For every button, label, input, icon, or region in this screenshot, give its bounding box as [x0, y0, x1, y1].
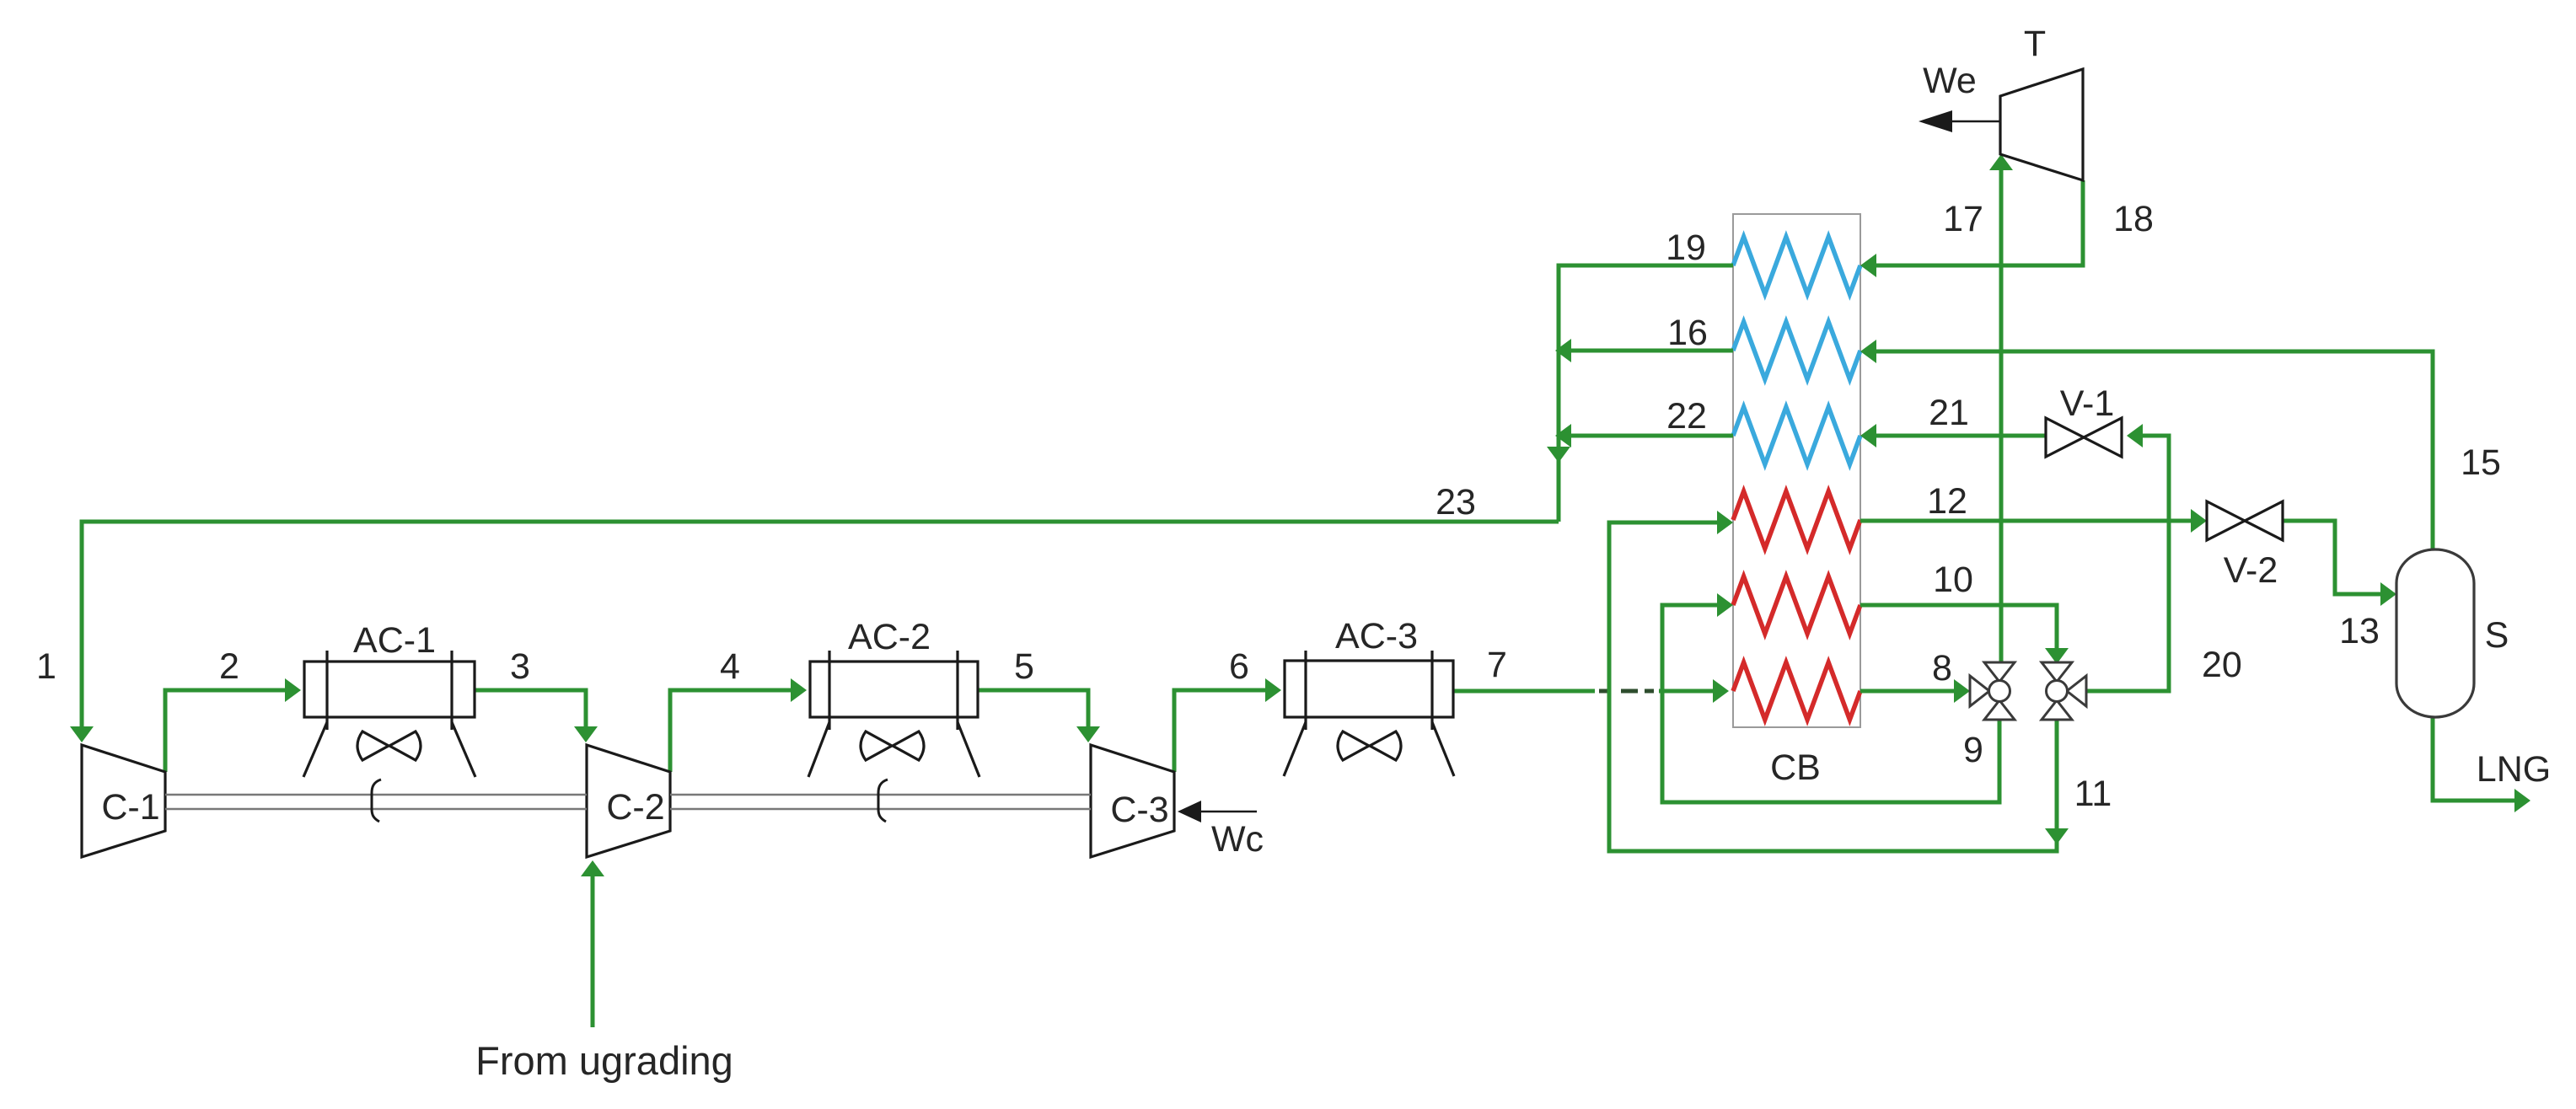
arrow feed into C-2: [581, 860, 604, 876]
arrow stream 10 into valve: [2045, 648, 2069, 664]
three-way valve 9 (left): [1970, 662, 2015, 720]
svg-text:V-2: V-2: [2224, 550, 2278, 591]
CB coil 8 (red zigzag): [1733, 662, 1860, 720]
fan AC-2: [861, 731, 924, 760]
wire stream 9 (valve 9 down, left and up to CB coil 10): [1662, 605, 1999, 802]
svg-text:16: 16: [1667, 313, 1708, 353]
arrow stream 11 into CB coil 12: [1717, 511, 1733, 534]
turbine T: [2000, 69, 2083, 180]
svg-text:C-1: C-1: [101, 787, 159, 828]
wire stream 10 (CB coil 10 to right valve): [1860, 605, 2057, 656]
arrow stream 8 into valve 9: [1954, 679, 1970, 703]
air cooler AC-2: [808, 651, 979, 777]
svg-text:S: S: [2485, 615, 2509, 656]
svg-text:T: T: [2024, 24, 2046, 64]
svg-text:2: 2: [219, 646, 239, 687]
shaft C-2 to C-3: [670, 795, 1091, 809]
arrow stream 22 into collector: [1555, 424, 1571, 447]
wire stream 23 (return line to C-1, with stream 1 drop): [82, 522, 1559, 735]
svg-text:CB: CB: [1770, 747, 1821, 788]
svg-text:4: 4: [720, 646, 740, 687]
svg-text:Wc: Wc: [1211, 819, 1264, 860]
arrow stream 11 down at junction: [2045, 828, 2069, 844]
three-way valve (right): [2042, 662, 2086, 720]
wire stream 20 (valve to V-1): [2085, 436, 2169, 691]
wire stream 8 (CB coil 8 to valve 9): [1860, 689, 1962, 694]
compressor C-3: [1091, 745, 1174, 857]
svg-text:11: 11: [2074, 774, 2112, 814]
arrow stream 12 into V-2: [2191, 509, 2207, 533]
svg-text:22: 22: [1666, 396, 1707, 437]
CB coil 10 (red zigzag): [1733, 576, 1860, 634]
svg-text:17: 17: [1943, 199, 1983, 239]
svg-text:3: 3: [510, 646, 530, 687]
wire stream 22 (CB to collector): [1566, 434, 1733, 438]
svg-text:V-1: V-1: [2060, 383, 2115, 424]
wire stream 3 (AC-1 to C-2): [475, 690, 586, 735]
wire stream 4 (C-2 to AC-2): [670, 690, 799, 772]
arrow stream 3 into C-2: [574, 726, 598, 742]
wire stream 5 (AC-2 to C-3): [978, 690, 1088, 735]
svg-text:We: We: [1923, 61, 1977, 101]
svg-text:C-2: C-2: [606, 787, 664, 828]
wire stream 13 (V-2 to separator S): [2283, 521, 2389, 594]
svg-text:9: 9: [1963, 730, 1983, 770]
arrow stream 7 into CB: [1713, 679, 1729, 703]
CB coil 12 (red zigzag): [1733, 491, 1860, 549]
svg-text:From ugrading: From ugrading: [475, 1038, 733, 1083]
heat exchanger cold box CB: [1733, 214, 1860, 727]
CB coil 19 (blue zigzag): [1733, 237, 1860, 294]
arrow stream 5 into C-3: [1076, 726, 1100, 742]
wire stream 7 (AC-3 to CB coil, with dashed crossover): [1453, 689, 1721, 694]
arrow stream 20 into V-1: [2127, 424, 2143, 447]
svg-text:8: 8: [1932, 648, 1952, 688]
fan AC-3: [1338, 731, 1401, 760]
valve V-2: [2207, 501, 2283, 540]
svg-text:5: 5: [1014, 646, 1034, 687]
wire From ugrading feed into C-2: [591, 868, 595, 1027]
arrow stream 9 into CB coil 10: [1717, 593, 1733, 617]
wire stream 17 (valve 9 up to turbine): [1999, 162, 2004, 662]
arrow stream 4 into AC-2: [791, 678, 807, 702]
svg-text:6: 6: [1229, 646, 1249, 687]
work output We arrow from turbine: [1952, 121, 2000, 123]
valve V-1: [2046, 418, 2122, 457]
svg-text:1: 1: [36, 646, 56, 687]
arrow stream 17 into turbine: [1989, 154, 2013, 170]
wire stream 16 (CB to collector): [1566, 349, 1733, 353]
svg-text:LNG: LNG: [2477, 749, 2551, 790]
air cooler AC-1: [303, 651, 475, 777]
svg-text:12: 12: [1927, 481, 1967, 522]
shaft break symbol: [878, 780, 888, 822]
arrow stream 21 into CB: [1860, 424, 1876, 447]
svg-text:18: 18: [2113, 199, 2154, 239]
wire LNG product from separator S: [2433, 717, 2523, 801]
wire stream 6 (C-3 to AC-3): [1174, 690, 1274, 772]
CB coil 22 (blue zigzag): [1733, 407, 1860, 464]
shaft break symbol: [372, 780, 381, 822]
wire stream 11 (valve down, left and up to CB coil 12): [1609, 522, 2057, 851]
arrow LNG product: [2514, 789, 2530, 812]
fan AC-1: [357, 731, 421, 760]
separator S: [2396, 549, 2474, 717]
svg-text:AC-2: AC-2: [848, 617, 931, 657]
arrow flow down on collector: [1547, 447, 1570, 463]
arrow stream 16 into collector: [1555, 339, 1571, 362]
wire stream 18 (turbine outlet to CB coil 19): [1868, 180, 2083, 265]
wire stream 15 (separator S top to CB coil 16): [1868, 351, 2433, 549]
svg-text:13: 13: [2339, 611, 2380, 651]
arrow stream 6 into AC-3: [1265, 678, 1281, 702]
wire stream 21 (V-1 to CB coil 22): [1868, 434, 2046, 438]
wire stream 2 (C-1 to AC-1): [165, 690, 293, 772]
svg-text:23: 23: [1436, 482, 1476, 522]
arrow stream 15 into CB: [1860, 340, 1876, 363]
wire stream 7 dark dashes at crossover: [1599, 689, 1654, 694]
arrow stream 13 into S: [2380, 582, 2396, 606]
work input Wc arrow into C-3: [1201, 811, 1257, 813]
arrow stream 18 into CB: [1860, 254, 1876, 277]
compressor C-2: [587, 745, 670, 857]
svg-text:AC-3: AC-3: [1335, 616, 1418, 656]
wire stream 12 (CB coil 12 to V-2): [1860, 519, 2199, 523]
air cooler AC-3: [1284, 651, 1454, 776]
svg-text:C-3: C-3: [1110, 790, 1168, 830]
arrow stream 1 into C-1: [70, 726, 94, 742]
svg-text:21: 21: [1929, 393, 1969, 433]
shaft C-1 to C-2: [165, 795, 587, 809]
svg-text:7: 7: [1487, 645, 1507, 685]
arrow stream 2 into AC-1: [285, 678, 301, 702]
svg-text:20: 20: [2202, 645, 2242, 685]
svg-text:19: 19: [1666, 228, 1706, 268]
svg-text:15: 15: [2461, 442, 2501, 483]
wire stream 19 (CB to collector, down to 23): [1559, 265, 1733, 522]
compressor C-1: [82, 745, 165, 857]
CB coil 16 (blue zigzag): [1733, 322, 1860, 379]
svg-text:10: 10: [1933, 560, 1973, 600]
svg-text:AC-1: AC-1: [353, 620, 436, 661]
